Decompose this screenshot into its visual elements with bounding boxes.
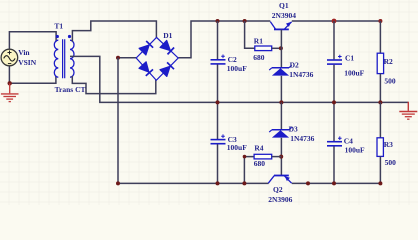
junction R4 left corner — [243, 155, 247, 159]
svg-text:VSIN: VSIN — [18, 58, 37, 67]
junction top rail at R2 — [378, 19, 382, 23]
zener diode D3 1N4736 — [269, 127, 292, 137]
wire: source top to transformer primary top — [9, 32, 56, 49]
junction bottom rail at C4 — [332, 181, 336, 185]
diode BR — [160, 66, 170, 76]
wire: bottom rail left of Q2 — [118, 182, 269, 184]
svg-text:R3: R3 — [384, 140, 393, 149]
ground (right, mid rail) — [399, 102, 417, 119]
resistor R2 — [377, 53, 383, 73]
junction bottom rail at C3 — [216, 181, 220, 185]
wire: R1 right lead — [272, 47, 282, 49]
wire: bottom rail right of Q2 — [292, 182, 381, 184]
svg-text:R2: R2 — [384, 57, 393, 66]
svg-text:500: 500 — [385, 158, 397, 167]
ground (left, at source) — [1, 83, 19, 101]
svg-text:C1: C1 — [345, 54, 354, 63]
svg-text:Vin: Vin — [18, 48, 30, 57]
wire: R2 bottom lead to mid rail — [379, 74, 381, 103]
bridge rectifier D1 — [136, 37, 178, 80]
wire: secondary top to bridge top (AC1) — [72, 21, 156, 42]
svg-text:100uF: 100uF — [345, 145, 365, 154]
junction bottom rail left end — [116, 181, 120, 185]
wire: -V vertical drop to bottom rail — [117, 58, 119, 184]
resistor R1 — [255, 46, 272, 51]
junction top rail at C1 — [332, 19, 337, 24]
resistor R4 — [254, 154, 272, 159]
junction R4/D3/Q2 base — [279, 155, 283, 159]
wire: R1 left lead from top rail — [245, 21, 255, 48]
svg-text:Q2: Q2 — [273, 185, 283, 194]
secondary coil — [70, 40, 74, 77]
wire: C3 to bottom rail — [217, 144, 219, 183]
phase dot secondary — [68, 35, 71, 38]
svg-text:100uF: 100uF — [344, 69, 364, 78]
junction top rail at C2 — [216, 19, 220, 23]
phase dot primary — [56, 35, 59, 38]
wire: R4 left lead from bottom rail — [244, 157, 254, 184]
zener diode D2 1N4736 — [269, 65, 292, 75]
svg-text:R1: R1 — [254, 37, 263, 46]
junction mid rail at C1/C4 — [332, 100, 336, 104]
wire: D2 anode to mid rail — [280, 76, 282, 103]
wire: source bottom to transformer primary bottom — [9, 66, 56, 83]
capacitor C3 — [211, 134, 226, 143]
wire: Q1 base lead down to R1 junction and D2 — [280, 30, 282, 68]
diode TL — [139, 45, 149, 55]
diode TR — [160, 40, 170, 50]
wire: C2 to mid rail to C3 — [217, 65, 219, 140]
junction at bridge left wire — [116, 56, 120, 60]
svg-text:1N4736: 1N4736 — [290, 134, 314, 143]
junction bottom rail right of Q2 emitter — [306, 181, 310, 185]
svg-text:Trans CT: Trans CT — [55, 85, 86, 94]
capacitor C1 — [327, 55, 342, 64]
transformer T1 — [54, 35, 74, 78]
junction bottom rail at R3 — [378, 181, 382, 185]
capacitor C2 — [211, 55, 226, 64]
wire: mid rail to R3 top — [379, 102, 381, 137]
junction mid rail at R2/R3 — [378, 100, 382, 104]
junction bottom rail at R4 — [242, 181, 246, 185]
capacitor C4 — [327, 136, 342, 145]
wire: C2 branch upper — [217, 21, 219, 59]
junction at source ground — [8, 81, 12, 85]
wire: C1 branch upper — [333, 21, 335, 59]
svg-text:C2: C2 — [228, 55, 237, 64]
wire: +V rail right of Q1 — [292, 20, 381, 22]
wire: secondary bottom to bridge bottom (AC2) — [72, 76, 156, 94]
svg-text:500: 500 — [384, 77, 396, 86]
transistor Q1 2N3904 — [270, 22, 291, 30]
svg-text:D3: D3 — [289, 125, 298, 134]
svg-text:680: 680 — [253, 53, 265, 62]
voltage source Vin VSIN — [1, 49, 18, 66]
svg-text:100uF: 100uF — [227, 143, 247, 152]
svg-text:100uF: 100uF — [227, 64, 247, 73]
svg-text:R4: R4 — [254, 144, 263, 153]
junction mid rail at C2/C3 — [216, 100, 220, 104]
svg-text:1N4736: 1N4736 — [289, 70, 313, 79]
wire: D3 to R4 junction to Q2 base — [280, 138, 282, 175]
svg-text:D2: D2 — [290, 61, 299, 70]
primary coil — [54, 40, 58, 77]
wire: R2 top lead — [379, 21, 381, 53]
svg-text:C4: C4 — [344, 136, 353, 145]
wire: center tap to ground mid rail — [70, 56, 409, 102]
svg-text:680: 680 — [254, 159, 265, 168]
svg-text:T1: T1 — [54, 22, 63, 31]
junction mid rail at D2/D3 — [279, 100, 283, 104]
wire: C4 to bottom rail — [333, 146, 335, 183]
diode BL — [139, 62, 149, 72]
wire: bridge left corner to -V drop — [118, 57, 136, 59]
junction R1/D2/Q1 base — [279, 46, 283, 50]
wire: mid rail to D3 cathode — [280, 102, 282, 129]
svg-text:D1: D1 — [163, 31, 172, 40]
svg-text:Q1: Q1 — [279, 1, 289, 10]
svg-text:2N3904: 2N3904 — [272, 11, 296, 20]
wire: C1 to mid rail to C4 — [333, 65, 335, 141]
wire: R3 bottom lead to bottom rail — [379, 156, 381, 183]
junction top rail at R1 — [243, 19, 247, 23]
core — [63, 39, 65, 78]
wire: bridge right corner up to +V rail — [178, 21, 270, 58]
transistor Q2 2N3906 — [268, 176, 291, 184]
wire: R4 right lead — [272, 156, 282, 158]
resistor R3 — [377, 138, 383, 157]
svg-text:2N3906: 2N3906 — [268, 195, 292, 204]
